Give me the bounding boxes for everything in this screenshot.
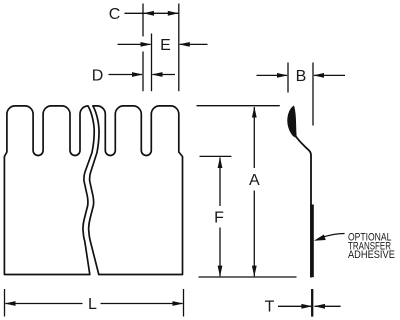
svg-text:D: D [92,67,104,84]
svg-text:T: T [265,298,275,315]
svg-text:L: L [88,296,97,313]
svg-text:C: C [109,6,121,23]
svg-text:ADHESIVE: ADHESIVE [348,249,395,261]
svg-text:E: E [160,37,171,54]
svg-text:F: F [214,210,224,227]
svg-text:A: A [249,172,260,189]
svg-text:B: B [296,68,307,85]
